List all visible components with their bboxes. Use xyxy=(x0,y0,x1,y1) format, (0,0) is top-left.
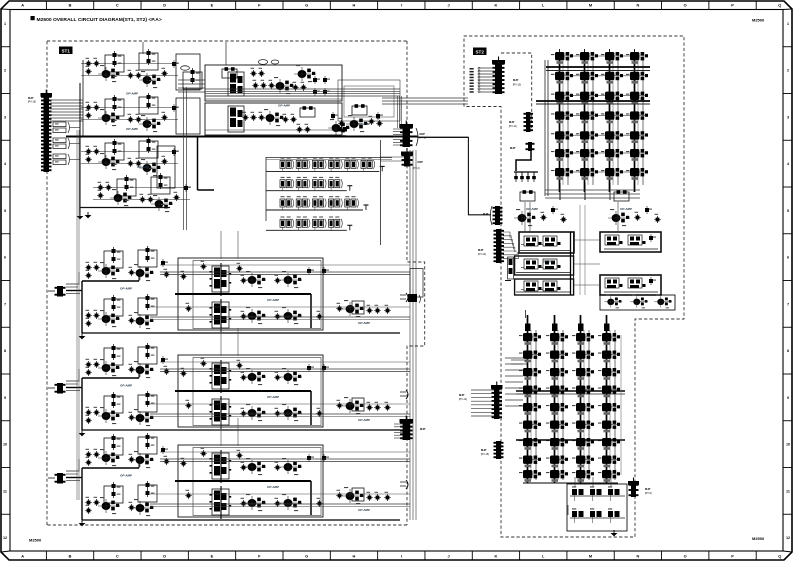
svg-text:OP-AMP: OP-AMP xyxy=(126,92,138,96)
svg-text:12: 12 xyxy=(786,536,790,540)
svg-text:I: I xyxy=(401,554,402,559)
svg-text:OP-AMP: OP-AMP xyxy=(620,207,632,211)
svg-text:Q: Q xyxy=(778,3,781,8)
svg-text:J: J xyxy=(447,554,449,559)
svg-text:J: J xyxy=(447,3,449,8)
svg-text:11: 11 xyxy=(3,489,7,493)
svg-text:M2500: M2500 xyxy=(29,538,42,543)
svg-text:O: O xyxy=(684,3,687,8)
svg-text:6: 6 xyxy=(787,256,789,260)
svg-text:D: D xyxy=(163,554,166,559)
svg-text:[PV-11]: [PV-11] xyxy=(509,125,517,128)
svg-text:OP-AMP: OP-AMP xyxy=(526,207,538,211)
svg-text:Q: Q xyxy=(778,554,781,559)
svg-text:5: 5 xyxy=(787,209,789,213)
svg-text:C: C xyxy=(116,554,119,559)
svg-text:P: P xyxy=(731,554,734,559)
svg-text:OP-AMP: OP-AMP xyxy=(267,485,279,489)
svg-text:12: 12 xyxy=(3,536,7,540)
svg-text:M2500: M2500 xyxy=(752,18,765,23)
svg-text:1: 1 xyxy=(787,22,789,26)
svg-text:B: B xyxy=(69,3,72,8)
svg-text:N: N xyxy=(636,554,639,559)
svg-text:2: 2 xyxy=(787,69,789,73)
svg-text:MJP: MJP xyxy=(420,132,426,136)
svg-text:2: 2 xyxy=(4,69,6,73)
svg-text:1: 1 xyxy=(4,22,6,26)
svg-text:E: E xyxy=(211,554,214,559)
svg-text:6: 6 xyxy=(4,256,6,260)
svg-text:MJP: MJP xyxy=(645,487,651,491)
svg-text:3: 3 xyxy=(4,115,6,119)
svg-text:10: 10 xyxy=(786,443,790,447)
svg-text:B: B xyxy=(69,554,72,559)
svg-text:3: 3 xyxy=(787,115,789,119)
svg-text:ST2: ST2 xyxy=(475,50,484,55)
svg-text:OP-AMP: OP-AMP xyxy=(358,321,370,325)
svg-text:OP-AMP: OP-AMP xyxy=(278,104,290,108)
svg-text:MJP: MJP xyxy=(510,146,516,150)
svg-text:OP-AMP: OP-AMP xyxy=(267,298,279,302)
svg-text:G: G xyxy=(305,554,308,559)
svg-text:MJP: MJP xyxy=(459,393,465,397)
svg-text:OP-AMP: OP-AMP xyxy=(126,127,138,131)
svg-text:A: A xyxy=(21,554,24,559)
svg-text:9: 9 xyxy=(4,396,6,400)
svg-text:[PV-15]: [PV-15] xyxy=(481,453,489,456)
svg-text:K: K xyxy=(494,554,497,559)
svg-text:8: 8 xyxy=(787,349,789,353)
svg-text:8: 8 xyxy=(4,349,6,353)
svg-text:M: M xyxy=(589,3,592,8)
svg-text:MJP: MJP xyxy=(420,427,426,431)
svg-text:O: O xyxy=(684,554,687,559)
svg-text:[PV-9]: [PV-9] xyxy=(645,492,652,495)
svg-text:OP-AMP: OP-AMP xyxy=(267,395,279,399)
svg-text:M2500 OVERALL CIRCUIT DIAGRAM(: M2500 OVERALL CIRCUIT DIAGRAM(ST1, ST2) … xyxy=(37,17,162,23)
svg-text:5: 5 xyxy=(4,209,6,213)
svg-text:OP-AMP: OP-AMP xyxy=(358,122,370,126)
svg-text:OP-AMP: OP-AMP xyxy=(120,474,132,478)
svg-text:MJP: MJP xyxy=(481,448,487,452)
svg-text:[PV-14]: [PV-14] xyxy=(459,398,467,401)
svg-text:I: I xyxy=(401,3,402,8)
svg-text:9: 9 xyxy=(787,396,789,400)
svg-text:OP-AMP: OP-AMP xyxy=(358,418,370,422)
svg-text:C: C xyxy=(116,3,119,8)
svg-text:[PV-10]: [PV-10] xyxy=(513,84,521,87)
svg-text:OP-AMP: OP-AMP xyxy=(120,384,132,388)
svg-text:H: H xyxy=(353,3,356,8)
svg-text:11: 11 xyxy=(786,489,790,493)
svg-text:K: K xyxy=(494,3,497,8)
svg-text:10: 10 xyxy=(3,443,7,447)
svg-text:MJP: MJP xyxy=(28,96,34,100)
svg-text:G: G xyxy=(305,3,308,8)
svg-text:[PV-12]: [PV-12] xyxy=(478,253,486,256)
svg-text:MJP: MJP xyxy=(418,160,424,164)
svg-text:MJP: MJP xyxy=(483,212,489,216)
svg-text:H: H xyxy=(353,554,356,559)
svg-text:OP-AMP: OP-AMP xyxy=(543,260,554,264)
svg-text:MJP: MJP xyxy=(509,120,515,124)
svg-text:[PV-2]: [PV-2] xyxy=(413,167,420,170)
svg-text:[PV-16]: [PV-16] xyxy=(28,101,36,104)
svg-text:M: M xyxy=(589,554,592,559)
svg-text:A: A xyxy=(21,3,24,8)
svg-text:7: 7 xyxy=(4,302,6,306)
svg-text:MJP: MJP xyxy=(478,248,484,252)
svg-text:MJP: MJP xyxy=(513,78,519,82)
svg-text:D: D xyxy=(163,3,166,8)
svg-text:E: E xyxy=(211,3,214,8)
svg-text:N: N xyxy=(636,3,639,8)
svg-text:M2500: M2500 xyxy=(752,536,765,541)
svg-text:P: P xyxy=(731,3,734,8)
svg-text:OP-AMP: OP-AMP xyxy=(137,165,149,169)
svg-text:OP-AMP: OP-AMP xyxy=(120,287,132,291)
svg-text:7: 7 xyxy=(787,302,789,306)
svg-text:ST1: ST1 xyxy=(61,49,70,54)
svg-text:OP-AMP: OP-AMP xyxy=(358,508,370,512)
